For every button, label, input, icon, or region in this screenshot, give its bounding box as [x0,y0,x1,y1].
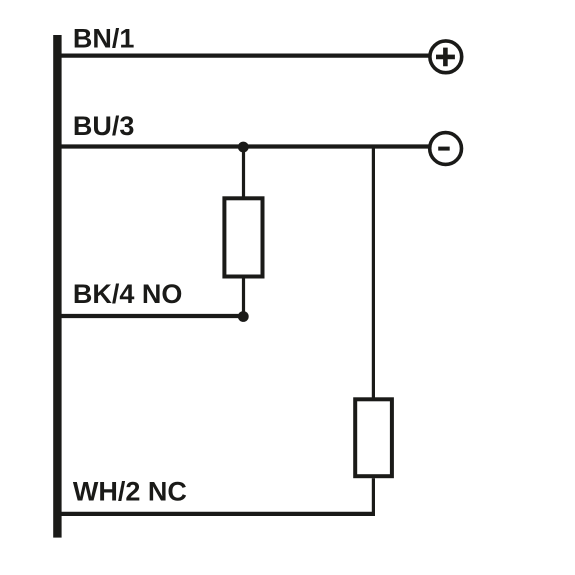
svg-text:BK/4 NO: BK/4 NO [73,279,183,309]
wire from node A down to load resistor R1 [242,147,245,197]
junction dot on BU/3 wire (node A) [238,142,249,153]
svg-text:WH/2 NC: WH/2 NC [73,476,187,506]
terminal + (plus circle) [430,41,462,73]
wire from R1 down to node B [242,279,245,317]
wire BU/3 (rail to - terminal) [61,144,430,148]
wire WH/2 NC (rail to R2 branch) [61,512,375,516]
load resistor R2 (NC branch) [355,399,392,476]
supply bus bar (left vertical rail) [53,35,61,538]
minus sign [438,147,450,151]
plus sign [436,48,455,67]
terminal - (minus circle) [430,133,462,165]
wire BN/1 (rail to + terminal) [61,53,430,57]
junction dot on BK/4 wire (node B) [238,311,249,322]
wire BK/4 NO (rail to node B) [61,314,243,318]
wire from BU/3 wire down to load resistor R2 [372,146,375,398]
load resistor R1 (NO branch) [224,198,262,276]
svg-text:BU/3: BU/3 [73,111,135,141]
svg-text:BN/1: BN/1 [73,24,135,54]
wire from R2 down to WH/2 wire [372,478,375,514]
